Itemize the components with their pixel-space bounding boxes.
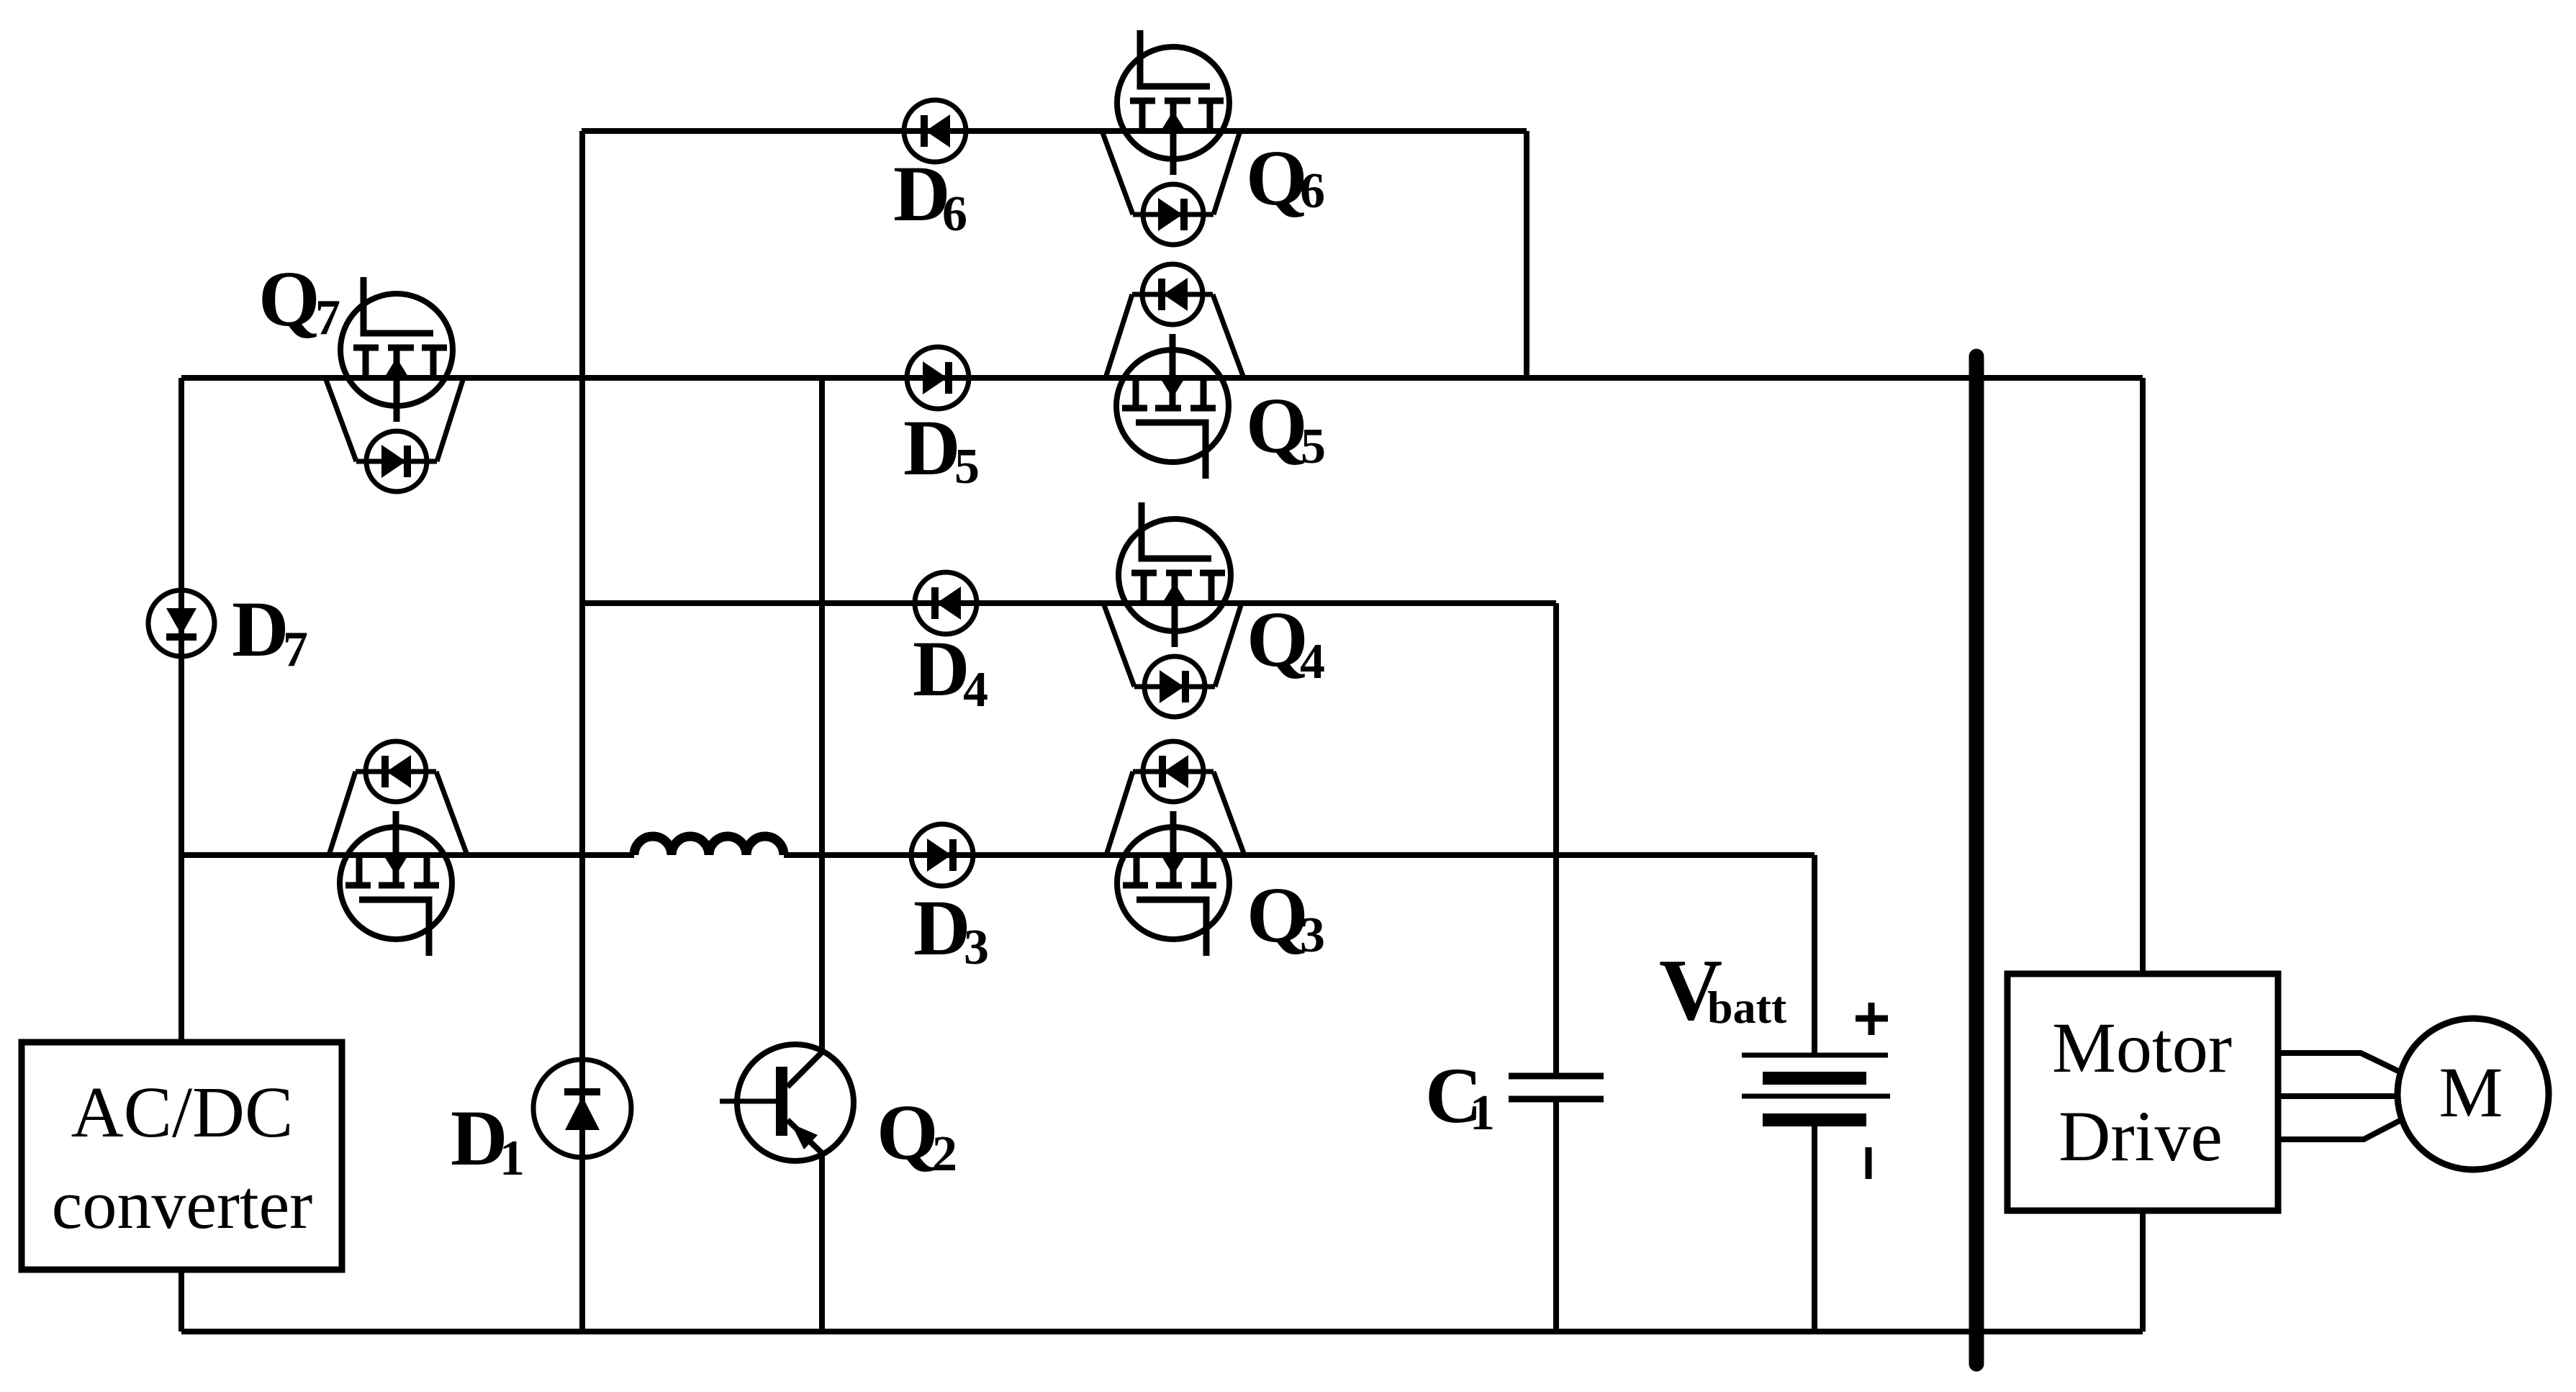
svg-text:Q: Q (877, 1088, 939, 1176)
svg-text:2: 2 (932, 1126, 957, 1182)
svg-text:7: 7 (283, 622, 308, 677)
svg-text:D: D (913, 884, 970, 972)
svg-text:4: 4 (963, 662, 988, 718)
svg-text:1: 1 (1470, 1085, 1495, 1141)
svg-text:Q: Q (1246, 381, 1308, 469)
svg-text:Q: Q (1246, 134, 1308, 222)
svg-text:1: 1 (500, 1131, 525, 1186)
svg-text:batt: batt (1707, 982, 1787, 1033)
svg-text:5: 5 (1301, 419, 1326, 474)
svg-text:4: 4 (1300, 634, 1325, 690)
svg-text:AC/DC: AC/DC (71, 1072, 294, 1152)
svg-text:M: M (2439, 1052, 2503, 1132)
svg-text:6: 6 (942, 186, 967, 242)
svg-text:D: D (903, 404, 960, 492)
svg-text:3: 3 (964, 920, 989, 975)
svg-text:D: D (232, 585, 289, 673)
svg-text:Q: Q (1247, 871, 1309, 959)
svg-text:3: 3 (1300, 908, 1325, 963)
svg-text:converter: converter (52, 1166, 312, 1243)
svg-text:Drive: Drive (2058, 1096, 2223, 1176)
svg-text:Motor: Motor (2052, 1008, 2232, 1088)
svg-text:D: D (913, 625, 970, 713)
svg-text:Q: Q (1247, 595, 1309, 683)
svg-text:6: 6 (1300, 163, 1325, 219)
svg-text:Q: Q (258, 255, 320, 343)
svg-text:5: 5 (954, 439, 980, 494)
svg-text:7: 7 (315, 290, 340, 345)
